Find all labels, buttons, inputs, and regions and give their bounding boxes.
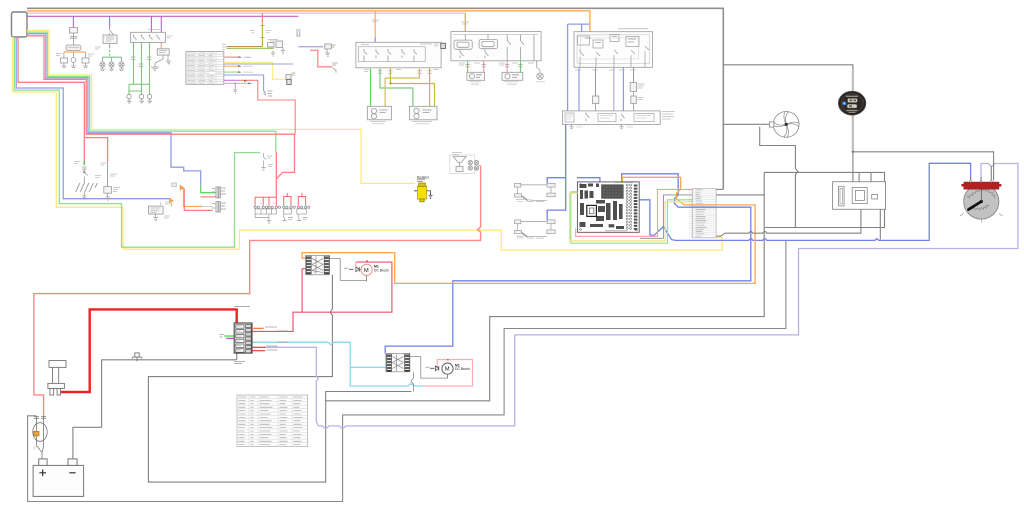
wire violet stub at terminal block [226,337,234,339]
headlamp bottom box [563,111,676,128]
wire gray usb to relay box [852,152,854,182]
wire blue speedometer minus [625,163,971,240]
starter button plunger [48,361,66,396]
battery [33,459,84,497]
wire gray main bus [27,8,723,189]
table T1 wire leads [224,56,295,134]
wire red bundleB [18,37,84,165]
relay bodies [255,209,306,221]
M2 motor + diode [426,359,470,378]
wire yellow bundleB long run [12,37,722,250]
usb charger gauge [839,91,866,115]
wire gray speedo pins [971,166,992,182]
wire blue bundleA [27,34,201,186]
wire green bundleB long run [14,37,260,247]
hazard flasher cluster (x148-176) [148,186,202,221]
wire pink M2 loop [424,360,473,387]
parts table T1 [186,52,224,85]
wire gray connector pigtail [236,353,238,360]
wire green stub at terminal block [224,335,234,337]
wire cyan branch to relay2 [350,366,386,368]
wire gray fan return [760,127,798,228]
wire gray relay1 ground snake [148,275,411,482]
red and gray wires from PCB to strip [576,189,693,238]
connector on yellow lead [286,73,296,85]
connector C2 on green stub [261,153,273,171]
wire gray loop mid [325,172,764,400]
wire blue bundleB [16,37,170,199]
wire lavender speedometer signal [266,164,1018,429]
wire blue crossing strip overlay [692,206,717,208]
dimmer cluster (x107) [101,162,121,200]
wire crimson relay feed [252,262,392,331]
wire blue PCB to relay2 [385,174,751,354]
relay control box [833,182,886,210]
wire green end segment to connector [201,185,216,192]
red feed drop with fuse [222,13,274,57]
wire gray battery negative riser [73,360,237,459]
splice box near blue end [172,183,177,186]
svg-text:M: M [445,367,450,373]
wire gray relay box to blue junction [879,209,881,239]
relay pin rows [254,206,310,208]
front wiper motor boxes [367,106,437,124]
wire gray relay1 to motor1 [330,259,367,281]
wire gray relay2 to motor2 [410,357,448,379]
turn signal stalk cluster (x84) [74,161,101,199]
wiper box output drops [364,68,439,107]
speedometer assembly [960,180,1003,222]
wire blue PCB top entry [577,178,600,182]
clockspring cluster F3 [268,40,286,57]
wire gray strip row3 east [716,194,765,196]
wire orange accessory feed [302,177,755,283]
fuse F1 cluster A [66,28,81,51]
wire yellow bundleA to fuel pump [27,30,415,183]
connector ends of blue and red drops [264,91,273,96]
green and yellow wrap around PCB [570,192,693,243]
connectors right of flasher [184,187,226,212]
wire pink bus [27,12,465,14]
svg-text:M: M [364,268,369,274]
wire orange bus [27,11,590,32]
cooling fan [769,112,799,138]
wire pink battery feed [34,166,481,417]
wire magenta bus [27,15,298,17]
relay K1 cluster A [56,52,94,68]
headlamp cluster drops [575,67,636,111]
connector labels [282,218,293,221]
M1 motor + diode [344,260,389,281]
wiper switch box [356,11,446,68]
fuel pump (yellow) [414,175,433,201]
wire orange crossing strip overlay [692,204,717,206]
inline switch on ground run [132,353,141,361]
wire magenta drop cluster B [109,16,111,27]
wire gray battery loop [28,241,786,502]
wire red bank jumpers [255,193,306,206]
wire red branch to right cluster [84,138,107,162]
relay bank (brake/turn relays) [254,193,310,224]
wire gray fan feed [723,123,769,125]
wire red splice from green [275,152,277,179]
inline fuse (battery) [33,417,47,459]
wire pink relay1 coil [302,269,306,313]
wire magenta drop cluster A [72,16,74,27]
purple fused feed [296,30,323,47]
wire green bundleA [27,32,276,151]
wire red bundleA to relay bank [27,36,295,198]
wire gray usb thick leads [852,70,854,152]
wire gray relay box top links [764,172,884,227]
wire gray speedo feed [853,152,994,181]
interior lamp relay box [451,13,541,61]
wire red thick starter to terminal block [61,309,237,392]
red elbow circuit [310,50,338,73]
wire blue door switch feed [547,124,566,219]
wire gray relay2 bottom jog [411,372,414,392]
connector C7 purple end [325,44,336,56]
connector B1 main harness box [12,12,28,37]
svg-text:Radiator: Radiator [417,175,430,179]
wire gray strip row1 to frame [716,188,723,190]
wire gray usb feed [723,65,853,70]
ignition switch box C [127,30,173,103]
terminal block stubs [252,327,288,351]
wire gray hop line to relay box [716,209,861,236]
relay box output drops [459,61,537,73]
switch S1 cluster B [95,27,124,71]
horn assembly [450,153,481,174]
wire cyan ground sense [252,342,424,386]
washer pump boxes [467,68,545,85]
ground bank [267,221,271,224]
svg-text:DC Brush: DC Brush [374,268,389,272]
wire magenta drops cluster C [151,16,161,32]
svg-text:DC Brush: DC Brush [455,367,470,371]
